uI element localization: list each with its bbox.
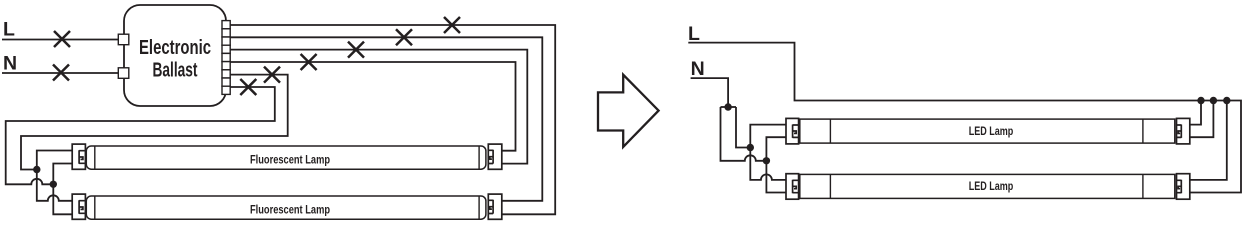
cut mark X on wire 2 (396, 29, 412, 45)
wire ballast out 1 to bottom lamp lower right pin (230, 25, 555, 214)
cut mark X on wire 1 (444, 17, 460, 33)
wire ballast out 5 to junction dot A (21, 75, 288, 170)
cut mark X on N wire (53, 65, 69, 81)
LED lamp 1 left cap (786, 118, 799, 143)
wire dot D to LED lamp 1 upper left pin (750, 125, 786, 148)
wire dot D to LED lamp 2 upper left pin (hops over dot E riser) (750, 148, 786, 180)
junction dot H on L line (1223, 97, 1230, 104)
LED lamp 1 right cap (1177, 118, 1190, 143)
cut mark X on wire 3 (348, 42, 364, 58)
wire ballast out 4 to top lamp upper right pin (230, 62, 515, 151)
wire dot C to junction dot D (736, 107, 750, 148)
svg-text:L: L (688, 23, 700, 45)
wire N to ballast (2, 72, 118, 74)
wire dot A to bottom lamp upper left pin (hops over dot B riser) (37, 170, 72, 201)
junction dot D (747, 144, 754, 151)
svg-text:N: N (3, 53, 17, 75)
fluorescent lamp 2 left cap (72, 194, 85, 219)
cut mark X on wire 5 (264, 67, 280, 83)
wire N down to junction dot C (691, 78, 729, 107)
junction dot G on L line (1210, 97, 1217, 104)
ballast input terminal (N) (118, 68, 129, 79)
svg-text:Fluorescent Lamp: Fluorescent Lamp (250, 152, 330, 166)
LED lamp 2 right cap (1177, 174, 1190, 200)
wire L to ballast (2, 39, 118, 41)
cut mark X on wire 6 (240, 79, 256, 95)
electronic ballast box (124, 5, 226, 106)
junction dot B (50, 181, 57, 188)
cut mark X on L wire (54, 31, 70, 47)
wire dot B to bottom lamp lower left pin (53, 184, 72, 214)
cut mark X on wire 4 (301, 54, 317, 70)
wire dot C to junction dot E (hops over dot D riser) (721, 107, 767, 161)
junction dot F on L line (1197, 97, 1204, 104)
junction dot A (33, 166, 40, 173)
LED lamp 2 tube (800, 174, 1175, 198)
ballast output terminal strip (9 terminals) (222, 21, 230, 95)
conversion arrow (598, 75, 659, 147)
svg-text:LED Lamp: LED Lamp (969, 179, 1014, 193)
LED lamp 1 tube (800, 119, 1175, 143)
wire LED lamp 1 lower right pin to L line (1190, 101, 1214, 138)
wire LED lamp 2 upper right pin to L line (1190, 101, 1227, 180)
wire ballast out 3 to top lamp lower right pin (230, 50, 527, 164)
LED lamp 2 left cap (786, 174, 799, 200)
svg-text:Electronic: Electronic (139, 36, 211, 59)
wire dot E to LED lamp 2 lower left pin (766, 161, 786, 193)
wire stub under dot C (721, 106, 737, 108)
fluorescent lamp 2 right cap (488, 194, 502, 219)
fluorescent lamp 1 tube (86, 146, 486, 169)
wire ballast out 6 to junction dot B (hops over dot A riser) (6, 87, 275, 184)
wire LED lamp 1 upper right pin to L line (1190, 101, 1201, 125)
wire ballast out 2 to bottom lamp upper right pin (230, 37, 542, 201)
svg-text:N: N (691, 58, 705, 80)
fluorescent lamp 1 right cap (488, 144, 502, 169)
svg-text:Ballast: Ballast (153, 58, 198, 81)
junction dot E (763, 157, 770, 164)
wire dot E to LED lamp 1 lower left pin (766, 137, 786, 161)
wire dot B to top lamp lower left pin (53, 164, 72, 185)
ballast input terminal (L) (118, 34, 129, 45)
junction dot C (724, 103, 731, 110)
svg-text:LED Lamp: LED Lamp (969, 124, 1014, 138)
fluorescent lamp 2 tube (86, 196, 486, 219)
svg-text:L: L (3, 19, 15, 41)
fluorescent lamp 1 left cap (72, 144, 85, 169)
svg-text:Fluorescent Lamp: Fluorescent Lamp (250, 202, 330, 216)
wire L to LED lamp right pins (688, 43, 1241, 193)
wire dot A to top lamp upper left pin (37, 151, 72, 170)
